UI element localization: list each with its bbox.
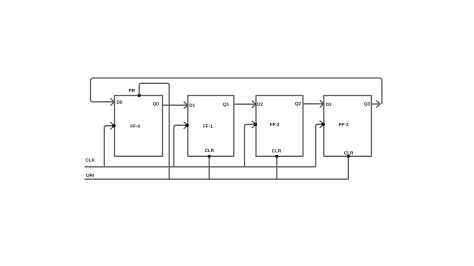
pin arrow D3 input — [320, 100, 324, 107]
node CLR FF-3 junction — [347, 155, 350, 158]
flip-flop FF-1 — [188, 96, 234, 157]
pin arrow FF-3 clock — [320, 121, 325, 128]
wire ORI bus — [85, 178, 349, 180]
pin arrow D1 input — [184, 102, 188, 109]
net CLK label — [86, 158, 95, 161]
pin label D2 — [257, 103, 262, 106]
pin arrow FF-0 clock — [110, 122, 115, 129]
pin label D1 — [189, 104, 194, 107]
pin label Q0 — [153, 102, 159, 106]
component name FF-3 — [339, 123, 348, 126]
wire Q0 to D1 — [163, 104, 187, 106]
component name FF-1 — [203, 125, 212, 128]
pin arrow D2 input — [252, 101, 256, 108]
pin label Q1 — [223, 103, 229, 107]
node CLR FF-1 junction — [208, 155, 211, 158]
pin label D0 — [117, 100, 122, 103]
pin arrow FF-1 clock — [184, 122, 189, 129]
wire Q2 to D3 — [303, 103, 323, 105]
wire PR loop to ORI — [139, 83, 169, 179]
component name FF-2 — [270, 123, 279, 126]
wire feedback Q3 to D0 top run — [91, 78, 382, 104]
wire CLK to FF-2 clock — [245, 124, 255, 166]
wire CLR FF-3 to ORI — [347, 156, 349, 179]
wire CLR FF-1 to ORI — [208, 156, 210, 179]
pin label CLR — [272, 149, 281, 152]
pin label PR — [129, 89, 135, 92]
node PR junction — [138, 94, 141, 97]
wire CLK bus — [85, 166, 316, 168]
wire Q1 to D2 — [234, 103, 255, 105]
node CLR FF-2 junction — [275, 155, 278, 158]
flip-flop FF-0 — [115, 89, 163, 156]
pin arrow FF-2 clock — [252, 121, 257, 128]
flip-flop FF-2 — [256, 96, 303, 157]
pin label D3 — [326, 103, 331, 106]
pin label CLR — [344, 151, 353, 154]
pin label Q3 — [364, 102, 370, 106]
wire CLK to FF-1 clock — [174, 125, 187, 167]
flip-flop FF-3 — [324, 96, 372, 157]
wire CLK to FF-3 clock — [316, 124, 323, 167]
wire CLR FF-2 to ORI — [276, 156, 278, 179]
pin arrow Q3 output — [376, 101, 380, 108]
pin label CLR — [205, 149, 214, 152]
pin label Q2 — [295, 102, 301, 106]
wire Q3 output — [371, 103, 379, 105]
wire CLK to FF-0 clock — [104, 126, 113, 167]
net ORI label — [86, 174, 94, 177]
pin arrow D0 input — [110, 98, 114, 105]
component name FF-0 — [131, 125, 140, 128]
